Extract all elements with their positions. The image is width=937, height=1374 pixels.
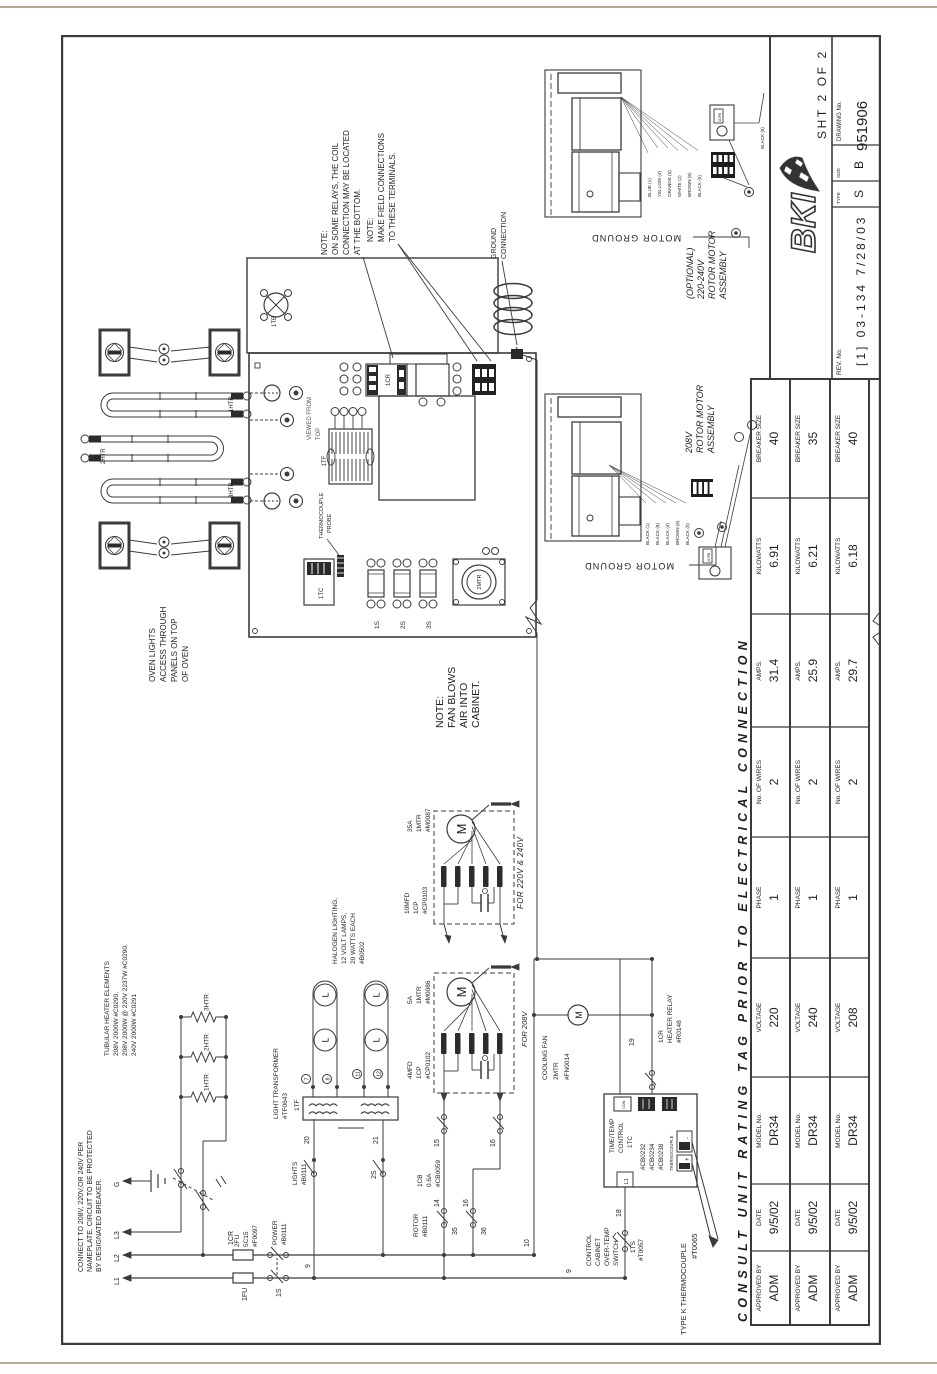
- L2 input arrow: [114, 1252, 131, 1262]
- motor assembly enclosure: [545, 70, 641, 217]
- transformer 1TF: [273, 1048, 398, 1120]
- svg-text:OF OVEN: OF OVEN: [181, 646, 190, 682]
- svg-text:NOTE:: NOTE:: [366, 218, 375, 242]
- svg-text:25.9: 25.9: [806, 658, 820, 682]
- svg-text:1CR: 1CR: [386, 373, 392, 386]
- svg-text:DR34: DR34: [846, 1115, 860, 1146]
- 208V motor labels: [407, 980, 432, 1079]
- svg-text:CONTROL: CONTROL: [618, 1122, 625, 1153]
- terminal strip (208V): [691, 479, 713, 497]
- heater contactor 1CR wires: [173, 1015, 235, 1257]
- junction box 1CP (optional): [710, 105, 734, 140]
- svg-text:#TF0643: #TF0643: [282, 1093, 289, 1119]
- lamp terminal 7: [302, 1075, 311, 1084]
- svg-text:208V: 208V: [684, 431, 694, 454]
- svg-text:TO THESE TERMINALS.: TO THESE TERMINALS.: [388, 152, 397, 242]
- svg-text:L1: L1: [114, 1277, 121, 1285]
- L1 input arrow: [114, 1275, 131, 1285]
- lamp loop: [311, 981, 339, 1097]
- svg-text:-: -: [685, 1137, 691, 1139]
- lamp terminal 12: [374, 1070, 383, 1079]
- svg-text:1CB: 1CB: [417, 1174, 424, 1187]
- svg-text:FOR 208V: FOR 208V: [520, 1011, 529, 1047]
- svg-text:APPROVED BY: APPROVED BY: [835, 1264, 842, 1311]
- svg-text:BLACK (4): BLACK (4): [665, 523, 670, 545]
- svg-text:35: 35: [806, 432, 820, 446]
- svg-text:7: 7: [305, 1077, 311, 1080]
- svg-text:NOTE:: NOTE:: [320, 231, 329, 255]
- cooling fan rung wire: [524, 959, 652, 1257]
- svg-text:L: L: [321, 992, 331, 997]
- table cell AMPS. row3: [835, 658, 860, 682]
- svg-text:CON: CON: [622, 1100, 626, 1109]
- svg-text:ADM: ADM: [806, 1275, 820, 1302]
- svg-text:KILOWATTS: KILOWATTS: [835, 537, 842, 575]
- svg-text:L2: L2: [114, 1254, 121, 1262]
- svg-text:#B0111: #B0111: [422, 1215, 429, 1237]
- svg-text:951906: 951906: [854, 101, 871, 151]
- svg-text:#M0087: #M0087: [425, 808, 432, 832]
- oven light assembly: [100, 330, 239, 375]
- 220-240V motor labels: [404, 808, 432, 914]
- svg-text:VOLTAGE: VOLTAGE: [795, 1002, 802, 1032]
- svg-text:[1] 03-134 7/28/03: [1] 03-134 7/28/03: [854, 215, 868, 366]
- svg-text:THERMOCOUPLE: THERMOCOUPLE: [669, 1135, 674, 1171]
- svg-text:ON SOME RELAYS, THE COIL: ON SOME RELAYS, THE COIL: [331, 142, 340, 255]
- svg-text:#CP0102: #CP0102: [425, 1052, 432, 1079]
- table cell MODEL No. row3: [835, 1113, 860, 1148]
- svg-text:40: 40: [767, 432, 781, 446]
- svg-text:9: 9: [305, 1264, 312, 1268]
- svg-text:15: 15: [434, 1139, 441, 1147]
- svg-text:1TC: 1TC: [627, 1136, 634, 1148]
- svg-text:#CB0234: #CB0234: [649, 1143, 656, 1170]
- svg-text:21: 21: [373, 1136, 380, 1144]
- junction box 1CP (208V): [699, 547, 731, 579]
- svg-text:1TS: 1TS: [630, 1240, 637, 1253]
- oven control box: [249, 353, 536, 637]
- table cell VOLTAGE row2: [795, 1002, 820, 1032]
- svg-text:PHASE: PHASE: [835, 886, 842, 909]
- svg-text:TYPE: TYPE: [836, 192, 841, 204]
- svg-text:1MTR: 1MTR: [416, 986, 423, 1004]
- svg-text:THERMOCOUPLE: THERMOCOUPLE: [319, 492, 325, 539]
- primary jumper wire: [338, 1127, 364, 1129]
- svg-text:1CR: 1CR: [228, 1231, 235, 1245]
- svg-text:31.4: 31.4: [767, 658, 781, 682]
- ground connection coil: [494, 284, 532, 360]
- svg-text:MOTOR GROUND: MOTOR GROUND: [591, 233, 681, 243]
- lights rung wire 2: [371, 1120, 386, 1257]
- svg-text:ORANGE (3): ORANGE (3): [667, 170, 672, 197]
- svg-text:CABINET.: CABINET.: [470, 681, 482, 728]
- svg-text:6.21: 6.21: [806, 544, 820, 568]
- svg-text:1MTR: 1MTR: [416, 814, 423, 832]
- svg-text:ADM: ADM: [846, 1275, 860, 1302]
- svg-text:1CPB: 1CPB: [707, 552, 711, 562]
- svg-text:#CP0103: #CP0103: [422, 887, 429, 914]
- svg-text:1CP: 1CP: [413, 901, 420, 914]
- lights rung wire: [292, 1119, 317, 1280]
- svg-text:M: M: [454, 824, 469, 835]
- table cell AMPS. row2: [795, 658, 820, 682]
- table cell APPROVED BY row2: [795, 1264, 820, 1311]
- svg-text:AMPS.: AMPS.: [835, 660, 842, 680]
- resistor 1HTR: [181, 1074, 226, 1102]
- svg-text:1S: 1S: [276, 1288, 283, 1297]
- svg-text:YELLOW (4): YELLOW (4): [657, 170, 662, 197]
- svg-text:1FU: 1FU: [242, 1288, 249, 1301]
- L3 input arrow: [114, 1229, 181, 1239]
- cabinet transformer 1TF physical: [322, 408, 374, 485]
- 1TC receptacle: [304, 559, 334, 605]
- svg-text:5A: 5A: [407, 995, 414, 1004]
- svg-text:8: 8: [326, 1077, 332, 1080]
- svg-text:ROTOR: ROTOR: [413, 1213, 420, 1237]
- svg-text:No. OF WIRES: No. OF WIRES: [756, 759, 763, 804]
- svg-text:10: 10: [524, 1239, 531, 1247]
- svg-text:#B0111: #B0111: [301, 1163, 308, 1185]
- svg-text:ROTOR MOTOR: ROTOR MOTOR: [707, 230, 717, 299]
- svg-text:CONNECTION MAY BE LOCATED: CONNECTION MAY BE LOCATED: [342, 130, 351, 255]
- table cell No. OF WIRES row1: [756, 759, 781, 804]
- svg-text:12: 12: [377, 1071, 383, 1077]
- svg-text:ACCESS THROUGH: ACCESS THROUGH: [159, 606, 168, 682]
- svg-text:#R0148: #R0148: [676, 1020, 683, 1043]
- svg-text:18: 18: [616, 1209, 623, 1217]
- svg-text:9/5/02: 9/5/02: [806, 1200, 820, 1234]
- BKI logo: [780, 157, 823, 253]
- mounting bracket: [390, 354, 447, 364]
- viewed from top note: [307, 397, 322, 440]
- svg-text:PROBE: PROBE: [327, 513, 333, 533]
- svg-text:DATE: DATE: [835, 1208, 842, 1226]
- svg-text:2FU: 2FU: [234, 1234, 241, 1247]
- oven lights note: [148, 606, 190, 682]
- svg-text:35: 35: [452, 1227, 459, 1235]
- svg-text:CABINET: CABINET: [595, 1238, 602, 1266]
- svg-text:GROUND: GROUND: [491, 228, 498, 259]
- small D mark: [255, 363, 260, 368]
- svg-text:MODEL No.: MODEL No.: [756, 1113, 763, 1148]
- svg-text:DRAWING No.: DRAWING No.: [837, 101, 843, 141]
- svg-text:2S: 2S: [400, 620, 407, 629]
- table cell PHASE row2: [795, 886, 820, 909]
- heater element 1HTR: [101, 392, 251, 418]
- svg-text:35A: 35A: [407, 820, 414, 832]
- svg-text:PHASE: PHASE: [795, 886, 802, 909]
- svg-text:BLACK (8): BLACK (8): [760, 127, 765, 149]
- svg-text:14: 14: [434, 1199, 441, 1207]
- over-temp switch labels: [586, 1227, 645, 1266]
- svg-text:M: M: [574, 1011, 584, 1019]
- svg-text:AMPS.: AMPS.: [756, 660, 763, 680]
- svg-text:LIGHTS: LIGHTS: [292, 1161, 299, 1185]
- connect-to note: [78, 1130, 103, 1272]
- svg-text:BLACK (1): BLACK (1): [645, 523, 650, 545]
- tubular heater elements note: [104, 944, 138, 1056]
- fuse 2FU: [233, 1225, 259, 1260]
- table cell KILOWATTS row3: [835, 537, 860, 575]
- lamp terminal 8: [323, 1075, 332, 1084]
- svg-text:2: 2: [767, 778, 781, 785]
- right vertical wire: [534, 958, 652, 960]
- fuse 1FU: [233, 1273, 253, 1301]
- G input arrow and ground symbol: [114, 1170, 165, 1192]
- svg-text:1: 1: [767, 894, 781, 901]
- svg-text:No. OF WIRES: No. OF WIRES: [835, 759, 842, 804]
- svg-text:WHITE (2): WHITE (2): [677, 175, 682, 197]
- svg-text:VOLTAGE: VOLTAGE: [756, 1002, 763, 1032]
- svg-text:L3: L3: [114, 1231, 121, 1239]
- svg-text:240: 240: [806, 1007, 820, 1027]
- svg-text:OVER-TEMP: OVER-TEMP: [604, 1227, 611, 1266]
- motor wire labels (optional): [621, 97, 765, 197]
- svg-text:COOLING FAN: COOLING FAN: [542, 1035, 549, 1080]
- svg-text:MAKE FIELD CONNECTIONS: MAKE FIELD CONNECTIONS: [377, 133, 386, 242]
- 208V rotor motor circuit (dashed box): [434, 964, 529, 1093]
- svg-text:11: 11: [356, 1071, 362, 1076]
- heater element 2HTR: [81, 435, 224, 464]
- L2 rail: [131, 1254, 534, 1256]
- 208V assembly caption: [684, 384, 716, 454]
- motor body: [551, 396, 640, 539]
- fan blows note: [434, 667, 482, 728]
- ground wire with break symbol: [523, 355, 541, 961]
- svg-text:PHASE: PHASE: [756, 886, 763, 909]
- svg-text:BROWN (6): BROWN (6): [675, 520, 680, 545]
- table cell KILOWATTS row2: [795, 537, 820, 575]
- svg-text:220-240V: 220-240V: [696, 259, 706, 300]
- svg-text:CONNECTION: CONNECTION: [501, 212, 508, 259]
- svg-text:SIZE: SIZE: [836, 168, 841, 178]
- svg-text:220: 220: [767, 1007, 781, 1027]
- svg-text:L: L: [372, 1037, 382, 1042]
- svg-text:BREAKER SIZE: BREAKER SIZE: [756, 414, 763, 462]
- svg-text:G: G: [114, 1182, 121, 1187]
- svg-text:BLACK (5): BLACK (5): [685, 523, 690, 545]
- svg-text:6.91: 6.91: [767, 544, 781, 568]
- ratings table grid: [751, 379, 869, 1325]
- table cell PHASE row1: [756, 886, 781, 909]
- svg-text:AMPS.: AMPS.: [795, 660, 802, 680]
- svg-text:36: 36: [481, 1227, 488, 1235]
- svg-text:20: 20: [304, 1136, 311, 1144]
- motor assembly enclosure: [545, 394, 641, 541]
- table cell BREAKER SIZE row1: [756, 414, 781, 462]
- svg-text:VIEWED FROM: VIEWED FROM: [307, 397, 313, 440]
- svg-text:2S: 2S: [371, 1170, 378, 1179]
- svg-text:REV. No.: REV. No.: [836, 348, 843, 375]
- svg-text:NOTE:: NOTE:: [434, 696, 446, 728]
- svg-text:1CR: 1CR: [658, 1030, 665, 1043]
- thermocouple probe in cabinet: [319, 492, 344, 577]
- svg-text:S: S: [852, 190, 866, 198]
- type size cell: [836, 161, 866, 204]
- svg-text:ASSEMBLY: ASSEMBLY: [706, 404, 716, 454]
- svg-text:#FN0014: #FN0014: [564, 1053, 571, 1080]
- switch 1S contacts: [268, 1220, 289, 1297]
- circulating fan 1TB: [261, 290, 292, 328]
- CON rung wire: [619, 959, 621, 1094]
- table cell DATE row1: [756, 1200, 781, 1234]
- svg-text:3S: 3S: [426, 620, 433, 629]
- svg-text:29.7: 29.7: [846, 658, 860, 682]
- L1 rail: [131, 1277, 625, 1279]
- field connection terminal strip: [472, 364, 496, 395]
- svg-text:2: 2: [806, 778, 820, 785]
- svg-text:10MFD: 10MFD: [404, 892, 411, 914]
- rotor rung A wire: [434, 1093, 459, 1280]
- svg-text:PANELS ON TOP: PANELS ON TOP: [170, 618, 179, 682]
- svg-text:KILOWATTS: KILOWATTS: [795, 537, 802, 575]
- svg-text:#CB0059: #CB0059: [435, 1160, 442, 1187]
- svg-text:BKI: BKI: [785, 192, 823, 253]
- svg-text:2MTR: 2MTR: [553, 1062, 560, 1080]
- svg-text:DATE: DATE: [756, 1208, 763, 1226]
- svg-text:B: B: [852, 161, 866, 169]
- rotor switch labels: [413, 1213, 429, 1237]
- svg-text:2MTR: 2MTR: [477, 574, 483, 589]
- svg-text:1CP8: 1CP8: [718, 113, 722, 122]
- svg-text:M: M: [454, 987, 469, 998]
- svg-text:#CB0232: #CB0232: [640, 1143, 647, 1170]
- svg-text:L1: L1: [624, 1178, 630, 1184]
- motor wire labels (208V): [609, 465, 690, 545]
- svg-text:TOP: TOP: [316, 428, 322, 440]
- svg-text:CONNECT TO 208V, 220V,OR 240V: CONNECT TO 208V, 220V,OR 240V PER: [78, 1142, 85, 1272]
- inner cover rectangle: [379, 396, 475, 500]
- svg-text:BREAKER SIZE: BREAKER SIZE: [795, 414, 802, 462]
- svg-text:ROTOR MOTOR: ROTOR MOTOR: [695, 384, 705, 453]
- svg-text:No. OF WIRES: No. OF WIRES: [795, 759, 802, 804]
- svg-text:L: L: [321, 1037, 331, 1042]
- drawing no cell: [837, 101, 871, 151]
- 1CB breaker label: [417, 1160, 442, 1187]
- svg-text:#T0065: #T0065: [690, 1234, 699, 1259]
- fan plenum box: [247, 258, 498, 353]
- svg-text:1TC: 1TC: [319, 587, 325, 599]
- note field connections: [366, 133, 491, 361]
- svg-text:6.18: 6.18: [846, 544, 860, 568]
- svg-text:16: 16: [490, 1139, 497, 1147]
- rev no cell: [836, 215, 868, 375]
- resistor 3HTR: [181, 994, 226, 1022]
- table cell DATE row3: [835, 1200, 860, 1234]
- table cell No. OF WIRES row2: [795, 759, 820, 804]
- table cell APPROVED BY row1: [756, 1264, 781, 1311]
- table cell PHASE row3: [835, 886, 860, 909]
- svg-text:MODEL No.: MODEL No.: [835, 1113, 842, 1148]
- svg-text:L: L: [372, 992, 382, 997]
- svg-text:FAN BLOWS: FAN BLOWS: [446, 667, 458, 728]
- svg-text:DATE: DATE: [795, 1208, 802, 1226]
- lamp terminal 11: [353, 1070, 362, 1079]
- svg-text:#B0111: #B0111: [281, 1223, 288, 1245]
- 220-240V rotor motor circuit (dashed box): [434, 801, 525, 943]
- svg-text:TIME/TEMP: TIME/TEMP: [609, 1119, 616, 1153]
- svg-text:208: 208: [846, 1007, 860, 1027]
- table cell BREAKER SIZE row3: [835, 414, 860, 462]
- svg-text:16: 16: [463, 1199, 470, 1207]
- svg-text:LIGHT TRANSFORMER: LIGHT TRANSFORMER: [273, 1048, 280, 1119]
- svg-text:BLUE (1): BLUE (1): [647, 178, 652, 197]
- svg-text:2: 2: [846, 778, 860, 785]
- svg-text:2HTR: 2HTR: [101, 448, 107, 464]
- svg-text:APPROVED BY: APPROVED BY: [756, 1264, 763, 1311]
- table cell APPROVED BY row3: [835, 1264, 860, 1311]
- svg-text:AT THE BOTTOM.: AT THE BOTTOM.: [353, 189, 362, 255]
- svg-text:SWITCH: SWITCH: [613, 1240, 620, 1266]
- svg-text:OVEN LIGHTS: OVEN LIGHTS: [148, 628, 157, 682]
- svg-text:KILOWATTS: KILOWATTS: [756, 537, 763, 575]
- svg-text:POWER: POWER: [272, 1220, 279, 1245]
- svg-text:SHT 2 OF 2: SHT 2 OF 2: [815, 49, 829, 139]
- motor ground label (optional): [591, 233, 749, 248]
- svg-text:3HTR: 3HTR: [204, 994, 211, 1011]
- time-temp control 1TC box: [604, 1094, 697, 1187]
- table cell MODEL No. row2: [795, 1113, 820, 1148]
- svg-text:TYPE K THERMOCOUPLE: TYPE K THERMOCOUPLE: [679, 1243, 688, 1335]
- motor ground label (208V): [584, 547, 716, 571]
- svg-text:#F0097: #F0097: [252, 1225, 259, 1247]
- svg-text:HALOGEN LIGHTING,: HALOGEN LIGHTING,: [332, 898, 339, 964]
- svg-text:VOLTAGE: VOLTAGE: [835, 1002, 842, 1032]
- cabinet corner screws: [253, 629, 258, 634]
- svg-text:ADM: ADM: [767, 1275, 781, 1302]
- svg-text:DR34: DR34: [806, 1115, 820, 1146]
- svg-text:9/5/02: 9/5/02: [846, 1200, 860, 1234]
- svg-text:BLACK (5): BLACK (5): [697, 175, 702, 197]
- switches 1S 2S 3S: [367, 559, 437, 629]
- svg-text:(OPTIONAL): (OPTIONAL): [685, 247, 695, 299]
- svg-text:9/5/02: 9/5/02: [767, 1200, 781, 1234]
- svg-text:3HTR: 3HTR: [229, 482, 235, 498]
- svg-text:TUBULAR HEATER ELEMENTS: TUBULAR HEATER ELEMENTS: [104, 960, 111, 1056]
- svg-text:DR34: DR34: [767, 1115, 781, 1146]
- svg-text:BROWN (6): BROWN (6): [687, 172, 692, 197]
- type K thermocouple probe symbol: [679, 1142, 718, 1335]
- svg-text:+: +: [685, 1157, 691, 1161]
- svg-text:#CB0238: #CB0238: [658, 1143, 665, 1170]
- rotor rung B wire: [463, 1093, 504, 1257]
- svg-text:NAMEPLATE. CIRCUIT TO BE PROT: NAMEPLATE. CIRCUIT TO BE PROTECTED: [87, 1130, 94, 1272]
- svg-text:1TB: 1TB: [272, 316, 278, 327]
- lamp loop: [362, 981, 390, 1097]
- table cell No. OF WIRES row3: [835, 759, 860, 804]
- heater relay rung wire: [629, 957, 683, 1094]
- relay 2 in cabinet: [416, 363, 461, 406]
- svg-text:20 WATTS EACH: 20 WATTS EACH: [350, 913, 357, 964]
- svg-text:FOR 220V & 240V: FOR 220V & 240V: [516, 836, 525, 909]
- svg-text:9: 9: [566, 1269, 573, 1273]
- svg-text:ASSEMBLY: ASSEMBLY: [718, 250, 728, 300]
- svg-text:40: 40: [846, 432, 860, 446]
- svg-text:4MFD: 4MFD: [407, 1061, 414, 1079]
- heater element 3HTR: [101, 478, 251, 504]
- border break squiggle: [873, 613, 885, 645]
- svg-text:208V 2000W @ 220V 2237W #C0290: 208V 2000W @ 220V 2237W #C0290,: [122, 944, 129, 1056]
- svg-text:#M0086: #M0086: [425, 980, 432, 1004]
- resistor 2HTR: [181, 1034, 226, 1062]
- svg-text:12 VOLT LAMPS,: 12 VOLT LAMPS,: [341, 913, 348, 964]
- ground terminals (208V): [695, 421, 757, 548]
- svg-text:#T0057: #T0057: [638, 1239, 645, 1261]
- table cell VOLTAGE row3: [835, 1002, 860, 1032]
- svg-text:1CP: 1CP: [416, 1066, 423, 1079]
- svg-text:1HTR: 1HTR: [204, 1074, 211, 1091]
- svg-text:AIR INTO: AIR INTO: [458, 683, 470, 728]
